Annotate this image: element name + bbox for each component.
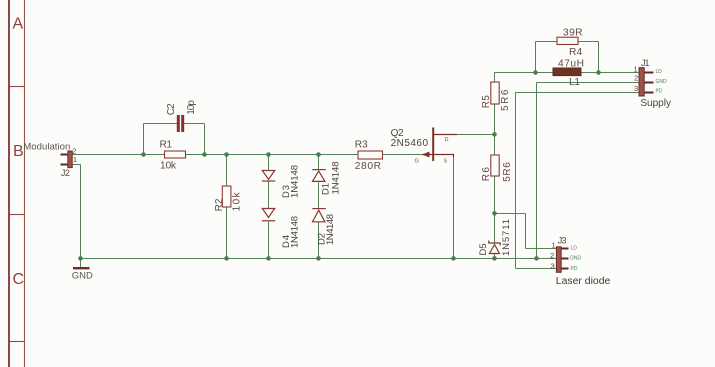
svg-text:10k: 10k: [231, 191, 242, 211]
svg-text:GND: GND: [72, 271, 94, 281]
svg-text:Modulation: Modulation: [23, 142, 70, 152]
svg-text:5R6: 5R6: [500, 89, 511, 111]
svg-text:R1: R1: [160, 140, 173, 151]
svg-text:1N4148: 1N4148: [290, 216, 301, 248]
svg-text:280R: 280R: [355, 161, 381, 172]
svg-text:3: 3: [551, 262, 555, 271]
svg-text:C: C: [13, 271, 25, 288]
svg-text:47uH: 47uH: [558, 59, 584, 70]
svg-text:LD: LD: [571, 246, 578, 252]
svg-text:G: G: [415, 158, 419, 164]
svg-text:PD: PD: [571, 266, 578, 272]
svg-text:1: 1: [73, 155, 77, 164]
svg-text:J1: J1: [641, 58, 650, 68]
svg-text:LD: LD: [656, 69, 663, 75]
svg-text:10k: 10k: [160, 161, 177, 172]
svg-text:B: B: [13, 143, 24, 160]
svg-text:2N5460: 2N5460: [391, 138, 429, 149]
svg-text:1: 1: [634, 64, 638, 73]
svg-text:D5: D5: [478, 244, 489, 256]
svg-text:GND: GND: [656, 79, 668, 85]
svg-text:J2: J2: [61, 168, 70, 178]
svg-text:R5: R5: [481, 95, 492, 108]
svg-text:2: 2: [634, 74, 638, 83]
svg-text:1: 1: [552, 241, 556, 250]
svg-text:D: D: [445, 137, 449, 143]
svg-text:GND: GND: [570, 255, 582, 261]
svg-text:PD: PD: [656, 89, 663, 95]
svg-text:3: 3: [634, 84, 638, 93]
svg-text:2: 2: [550, 251, 554, 260]
svg-text:1N4148: 1N4148: [331, 162, 342, 195]
svg-text:R2: R2: [214, 198, 225, 211]
svg-text:Supply: Supply: [640, 98, 671, 109]
svg-text:5R6: 5R6: [502, 162, 513, 182]
svg-text:S: S: [444, 158, 448, 164]
svg-text:J3: J3: [558, 236, 567, 246]
svg-text:C2: C2: [166, 103, 177, 115]
svg-text:10p: 10p: [186, 100, 197, 115]
svg-text:1N4148: 1N4148: [290, 165, 301, 198]
svg-text:L1: L1: [569, 77, 580, 88]
svg-text:A: A: [13, 16, 24, 33]
svg-text:1N4148: 1N4148: [325, 214, 336, 245]
svg-text:R3: R3: [355, 140, 368, 151]
svg-text:Laser diode: Laser diode: [556, 276, 611, 287]
svg-text:R4: R4: [569, 47, 583, 58]
svg-text:1N5711: 1N5711: [501, 219, 512, 256]
svg-text:39R: 39R: [563, 28, 583, 39]
